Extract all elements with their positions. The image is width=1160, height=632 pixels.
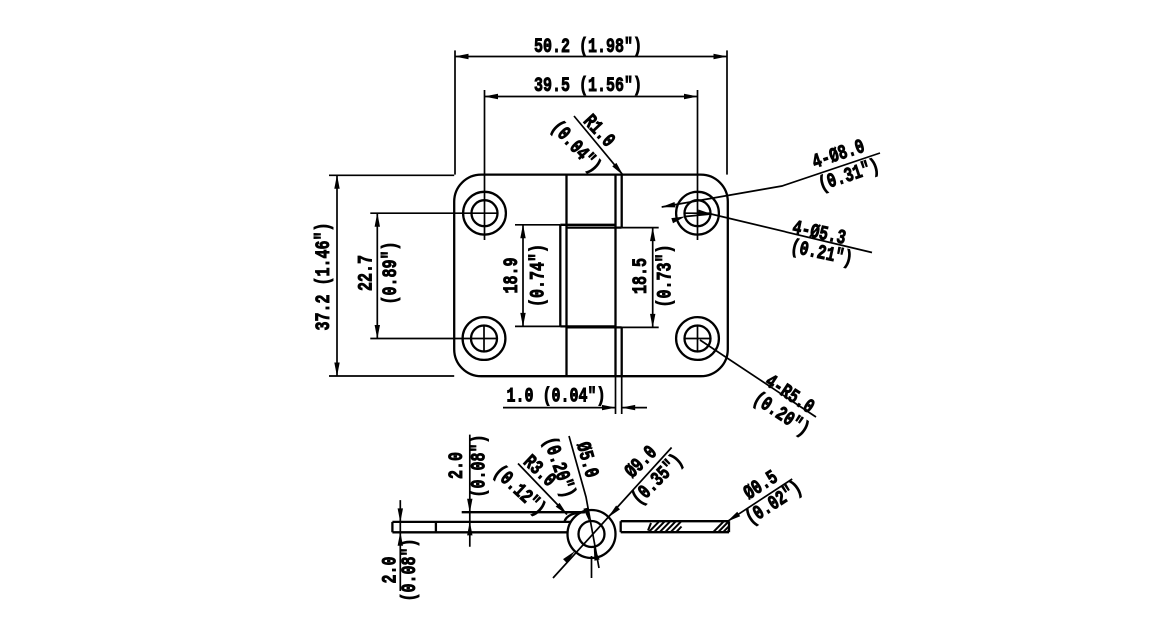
knuckle top boundary line B xyxy=(567,226,622,228)
crosshair BL vertical xyxy=(483,326,485,352)
leader R1.0 (0.04") xyxy=(574,116,623,175)
knuckle right edge line xyxy=(614,175,616,377)
left leaf tick xyxy=(435,522,437,532)
knuckle centerline vertical below xyxy=(591,556,593,578)
svg-text:50.2 (1.98"): 50.2 (1.98") xyxy=(534,36,642,59)
hole bottom-left xyxy=(463,317,506,360)
crosshair TL vertical / 39.5 left extension xyxy=(484,90,486,240)
crosshair BL horizontal / 22.7 bottom extension xyxy=(370,338,497,340)
dimension 2.0 (0.08") upper xyxy=(469,435,471,547)
hatching patch 1 xyxy=(648,522,682,532)
svg-text:(0.89"): (0.89") xyxy=(380,242,403,305)
dimension 50.2 (1.98") xyxy=(455,50,727,174)
left leaf bottom edge xyxy=(392,531,568,533)
dimension 2.0 (0.08") lower-left xyxy=(399,500,401,591)
crosshair BR vertical xyxy=(697,326,699,352)
pin hole circle xyxy=(579,521,605,547)
knuckle outer circle xyxy=(568,510,616,558)
crosshair BR horizontal xyxy=(685,338,711,340)
svg-text:(0.08"): (0.08") xyxy=(469,435,492,498)
leader Ø9.0 (0.35") xyxy=(553,448,672,579)
left leaf end cap xyxy=(391,522,393,532)
dimension 22.7 (0.89") xyxy=(376,213,378,338)
dimension 18.9 (0.74") xyxy=(515,225,560,327)
hatching patch 2 xyxy=(714,522,730,532)
svg-text:(0.74"): (0.74") xyxy=(528,244,551,307)
right leaf right cap xyxy=(728,521,730,532)
right leaf gap edge (top) xyxy=(621,175,623,228)
svg-text:(0.08"): (0.08") xyxy=(399,539,422,602)
svg-text:39.5 (1.56"): 39.5 (1.56") xyxy=(534,75,642,98)
leader Ø0.5 (0.02") xyxy=(727,479,792,521)
svg-text:18.5: 18.5 xyxy=(630,258,653,294)
hole top-left xyxy=(463,192,506,235)
dimension 18.5 (0.73") xyxy=(622,228,659,328)
dimension 37.2 (1.46") xyxy=(329,175,454,376)
svg-text:22.7: 22.7 xyxy=(356,255,379,291)
leader R3.0 (0.12") xyxy=(518,464,567,515)
right leaf left cap xyxy=(620,521,622,532)
hole top-right xyxy=(676,192,719,235)
dimension 1.0 (0.04") gap xyxy=(503,376,647,414)
hole bottom-right xyxy=(676,317,719,360)
knuckle bottom boundary line B xyxy=(567,326,622,328)
svg-text:1.0 (0.04"): 1.0 (0.04") xyxy=(507,386,606,409)
svg-text:2.0: 2.0 xyxy=(446,452,469,479)
knuckle left edge line xyxy=(565,175,567,377)
crosshair TL horizontal / 22.7 top extension xyxy=(370,212,498,214)
curled flap top line xyxy=(462,511,584,513)
right leaf gap edge (bottom) xyxy=(621,327,623,376)
svg-text:37.2 (1.46"): 37.2 (1.46") xyxy=(313,223,336,331)
svg-text:18.9: 18.9 xyxy=(501,258,524,294)
leader Ø5.0 (0.20") xyxy=(569,436,599,568)
leader 4-R5.0 (0.20") xyxy=(700,340,816,417)
dimension 39.5 (1.56") xyxy=(485,96,698,98)
knuckle top boundary line A xyxy=(560,224,615,226)
crosshair TR vertical / 39.5 right extension xyxy=(697,90,699,240)
knuckle bottom boundary line A xyxy=(560,325,615,327)
leader 4-Ø8.0 (0.31") xyxy=(662,153,880,207)
leader 4-Ø5.3 (0.21") xyxy=(684,214,872,253)
left leaf cut-back edge (middle) xyxy=(559,225,561,327)
crosshair TR horizontal xyxy=(685,212,711,214)
left leaf top edge xyxy=(392,521,571,523)
curl inner arc xyxy=(565,512,586,521)
hinge plate outline xyxy=(454,175,728,377)
svg-text:(0.73"): (0.73") xyxy=(655,245,678,308)
right leaf top edge xyxy=(621,520,729,522)
right leaf bottom edge xyxy=(621,531,729,533)
